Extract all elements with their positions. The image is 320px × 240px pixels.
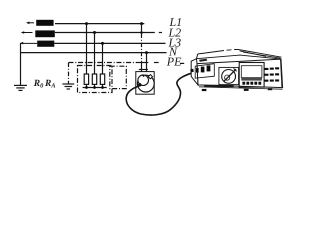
wire N drop to socket — [146, 53, 148, 72]
junction dot bus/F1 — [85, 86, 88, 89]
rotary knob inner — [225, 75, 230, 80]
connector panel socket 3 — [207, 65, 211, 71]
instrument foot 1 — [202, 89, 207, 91]
fuse F2 — [92, 74, 96, 84]
instrument left side face — [191, 59, 198, 85]
keypad grid 3x3 — [264, 67, 279, 81]
instrument lid back edge — [198, 49, 282, 57]
wire feeder1 from L1 to fuse F1 — [86, 24, 88, 74]
wire phase drop into socket — [141, 62, 143, 72]
instrument foot 2 — [244, 89, 249, 91]
instrument U1 (test instrument) — [190, 49, 282, 91]
instrument lid left tip edge — [197, 54, 198, 59]
svg-text:R0RA: R0RA — [33, 79, 56, 89]
wire fuse F2 bottom — [94, 84, 96, 87]
dash after L2 — [159, 32, 162, 34]
fuse F1 — [84, 74, 88, 84]
connector panel socket 2 — [201, 67, 205, 73]
HV lead arrow A1 — [26, 22, 34, 25]
plug cable nub — [138, 83, 141, 86]
junction dot L3/feeder3 — [101, 42, 104, 45]
instrument lid left hinge mark — [199, 59, 207, 62]
plug top tick — [142, 75, 144, 76]
HV lead arrow A3 (star point lead) — [20, 42, 37, 45]
instrument lid extra right line — [243, 52, 281, 58]
dash before PE label — [154, 62, 159, 64]
rotary knob outer — [222, 70, 236, 84]
knob tab — [234, 68, 237, 71]
wire feeder3 from L3 to fuse F3 — [102, 43, 104, 74]
socket circle — [137, 75, 154, 92]
wire L1 — [55, 23, 144, 25]
junction dot L1/feeder1 — [85, 22, 88, 25]
meter box (dash-dot) — [110, 66, 127, 88]
ground symbol RA — [62, 84, 74, 89]
connector panel socket 1 — [196, 68, 199, 73]
display lower band — [241, 77, 262, 80]
wire PE solid part near socket — [137, 62, 148, 64]
mains cable from plug to instrument — [126, 73, 191, 115]
wire socket top bar — [139, 69, 148, 71]
junction dot bus/F2 — [93, 86, 96, 89]
plug body circle — [138, 75, 149, 86]
wire PE dash-dot part — [69, 62, 138, 64]
instrument foot 3 — [268, 88, 272, 90]
instrument lid middle right line — [240, 51, 267, 57]
transformer winding W1 — [36, 20, 53, 26]
wire N — [21, 52, 167, 54]
dash after PE label — [180, 62, 184, 64]
junction dot bus/F3 — [101, 86, 104, 89]
junction dot N/socket drop — [145, 51, 148, 54]
wire L3 — [54, 42, 165, 44]
knob recess square — [219, 67, 239, 84]
fuse F3 — [100, 74, 104, 84]
ground symbol R0 — [14, 85, 27, 90]
instrument bottom dark bar — [204, 85, 234, 87]
wire feeder2 from L2 to fuse F2 — [94, 33, 96, 75]
wire to earth electrode RA (dash-dot) — [68, 63, 70, 84]
wire bus under fuses — [83, 87, 107, 89]
transformer winding W3 — [37, 41, 54, 47]
display screen — [241, 66, 262, 78]
plug tab — [148, 75, 152, 79]
wire to earth electrode R0 — [20, 43, 22, 85]
display button row — [242, 82, 261, 85]
wire L2 — [55, 32, 155, 34]
wire phase drop to socket (dash-dot middle) — [141, 34, 143, 62]
instrument bottom second line — [199, 87, 283, 89]
wire fuse F3 bottom — [102, 84, 104, 87]
transformer winding W2 — [35, 30, 55, 37]
display module frame — [239, 63, 264, 88]
svg-text:PE: PE — [166, 54, 182, 68]
knob pointer — [224, 69, 236, 81]
distribution box (dash-dot) with fuses — [78, 66, 113, 93]
wire phase drop to socket (solid from L1 to L2) — [141, 24, 143, 34]
HV lead arrow A2 — [21, 31, 33, 34]
instrument right inner edge — [280, 59, 281, 87]
junction dot L2/socket drop — [140, 31, 143, 34]
instrument lid front edge — [197, 55, 282, 59]
instrument front face — [197, 59, 283, 88]
junction dot L1/socket drop — [140, 22, 143, 25]
socket box — [136, 72, 154, 95]
instrument cable connector nub — [190, 69, 193, 73]
wire fuse F1 bottom — [86, 84, 88, 87]
instrument connector panel — [195, 64, 214, 78]
junction dot L2/feeder2 — [93, 31, 96, 34]
